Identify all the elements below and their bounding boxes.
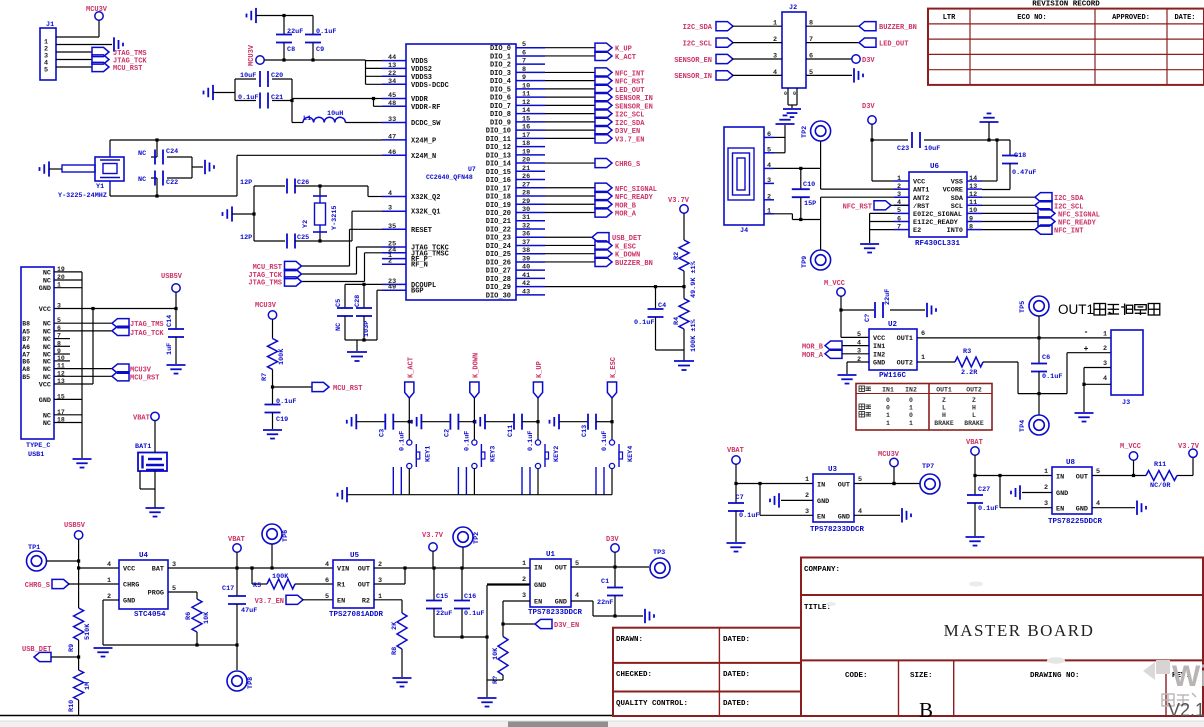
wire J4 pin1	[774, 213, 792, 215]
flag BUZZER_BN	[595, 257, 612, 266]
svg-text:12P: 12P	[240, 234, 252, 242]
ground (BAT1)	[146, 508, 165, 517]
wire	[683, 329, 685, 361]
U7 pin 30 DIO_20	[516, 212, 545, 214]
svg-text:B5: B5	[22, 374, 30, 381]
power VBAT (U4)	[233, 544, 241, 552]
U7 pin 8 DIO_3	[516, 71, 545, 73]
svg-text:BRAKE: BRAKE	[934, 420, 954, 427]
wire	[983, 361, 1018, 363]
svg-text:12P: 12P	[240, 179, 252, 187]
resistor R3 2.2R	[955, 357, 983, 367]
svg-text:47: 47	[388, 133, 396, 141]
wire	[78, 539, 80, 608]
capacitor C26 12P	[254, 185, 285, 187]
wire VCC	[871, 140, 873, 181]
wire	[1038, 394, 1040, 415]
ground (U8 gnd2)	[1011, 485, 1020, 499]
svg-text:0: 0	[793, 91, 796, 97]
svg-text:5: 5	[897, 207, 901, 215]
svg-text:10K: 10K	[492, 647, 500, 660]
svg-text:28: 28	[522, 190, 530, 198]
ground (C3)	[347, 414, 357, 429]
svg-text:DIO_15: DIO_15	[486, 169, 511, 177]
ground (C11)	[476, 414, 486, 429]
svg-text:D3V_EN: D3V_EN	[615, 128, 640, 136]
wire DIO_24	[545, 244, 595, 246]
svg-text:R6: R6	[185, 612, 193, 620]
capacitor C23 10uF	[912, 132, 920, 148]
svg-text:40: 40	[522, 264, 530, 272]
svg-text:DIO_11: DIO_11	[486, 136, 511, 144]
svg-text:MOR_B: MOR_B	[802, 344, 824, 352]
svg-text:C6: C6	[1042, 354, 1050, 362]
svg-text:DIO_7: DIO_7	[490, 103, 511, 111]
svg-text:34: 34	[388, 78, 396, 86]
svg-text:J2: J2	[789, 4, 797, 12]
power M_VCC (U8)	[1129, 452, 1137, 460]
ic U5 TPS27081ADDR	[333, 560, 374, 608]
svg-text:SENSOR_IN: SENSOR_IN	[674, 73, 712, 81]
wire	[196, 632, 198, 645]
svg-text:MCU3V: MCU3V	[878, 451, 900, 459]
svg-text:K_DOWN: K_DOWN	[472, 353, 480, 378]
svg-text:3: 3	[773, 53, 777, 61]
drawn/checked table	[613, 628, 801, 716]
svg-text:CHRG_S: CHRG_S	[615, 161, 640, 169]
svg-text:PW116C: PW116C	[879, 372, 907, 380]
wire	[820, 141, 822, 168]
svg-text:VBAT: VBAT	[966, 439, 983, 447]
svg-text:TP9: TP9	[801, 256, 809, 268]
testpoint TP2 (NFC)	[811, 121, 831, 141]
flag MOR_B	[595, 200, 612, 209]
svg-text:U2: U2	[888, 321, 898, 329]
svg-text:NFC_RST: NFC_RST	[615, 79, 644, 87]
U7 pin 22 VDDS3	[382, 75, 406, 77]
svg-text:DIO_13: DIO_13	[486, 152, 511, 160]
wire DIO_29 net	[545, 286, 684, 288]
svg-text:C19: C19	[276, 416, 288, 424]
U7 pin 28 DIO_18	[516, 195, 545, 197]
wire	[401, 649, 403, 677]
U7 pin 46 X24M_N	[382, 154, 406, 156]
svg-text:SENSOR_EN: SENSOR_EN	[615, 103, 653, 111]
flag USB_DET	[592, 233, 609, 242]
U7 pin 45 VDDR	[382, 98, 406, 100]
wire	[683, 271, 685, 287]
svg-text:TP7: TP7	[922, 463, 934, 471]
flag SENSOR_EN	[595, 101, 612, 110]
flag MCU_RST (R7)	[312, 382, 329, 391]
wire J4 pin4 node	[774, 167, 821, 169]
svg-text:GND: GND	[555, 599, 567, 607]
svg-text:13: 13	[969, 183, 977, 191]
svg-text:ANT2: ANT2	[913, 195, 929, 203]
svg-text:47uF: 47uF	[241, 607, 257, 615]
svg-text:I2C_SCL: I2C_SCL	[615, 112, 644, 120]
svg-text:R5: R5	[253, 582, 261, 590]
svg-text:-: -	[1084, 328, 1089, 337]
svg-text:NC/0R: NC/0R	[1150, 482, 1171, 490]
svg-text:2: 2	[805, 492, 809, 500]
svg-text:USB5V: USB5V	[161, 273, 183, 281]
svg-text:35: 35	[388, 223, 396, 231]
svg-text:BUZZER_BN: BUZZER_BN	[879, 24, 917, 32]
ground (U4)	[94, 648, 113, 657]
svg-text:30: 30	[522, 206, 530, 214]
wire OUT2	[917, 361, 955, 363]
power D3V (NFC)	[868, 116, 876, 124]
svg-text:14: 14	[969, 175, 977, 183]
wire	[421, 421, 450, 423]
svg-text:TPS78233DDCR: TPS78233DDCR	[810, 526, 865, 534]
ground (Y2 caps)	[223, 206, 233, 221]
svg-text:8: 8	[522, 66, 526, 74]
flag MOR_A	[595, 208, 612, 217]
flag I2C_SCL (U6)	[1035, 201, 1052, 210]
svg-text:MCU_RST: MCU_RST	[253, 264, 282, 272]
svg-text:V3.7V: V3.7V	[422, 532, 444, 540]
svg-text:3: 3	[897, 191, 901, 199]
U7 pin 6 DIO_1	[516, 55, 545, 57]
svg-text:100K ±1%: 100K ±1%	[690, 318, 698, 352]
wire	[683, 213, 685, 240]
ground (C14)	[167, 365, 186, 374]
svg-text:15: 15	[522, 115, 530, 123]
wire	[596, 421, 612, 423]
wire	[982, 229, 1035, 231]
wire	[272, 369, 274, 404]
resistor R10 1M	[74, 670, 84, 700]
svg-text:DIO_4: DIO_4	[490, 78, 511, 86]
resistor R11 NC/0R	[1146, 471, 1177, 481]
U7 pin 23 DCOUPL	[382, 283, 406, 285]
svg-text:TYPE_C: TYPE_C	[26, 442, 50, 450]
U7 pin 38 DIO_25	[516, 253, 545, 255]
flag I2C_SCL	[595, 109, 612, 118]
wire OUT	[374, 567, 530, 569]
svg-text:0.1uF: 0.1uF	[634, 319, 654, 327]
wire U3 gnd2	[781, 499, 813, 501]
capacitor C11 0.1uF	[514, 414, 522, 430]
svg-text:VDDR-RF: VDDR-RF	[411, 104, 440, 112]
wire DIO_17	[545, 187, 595, 189]
U7 pin 40 DIO_27	[516, 269, 545, 271]
power VBAT (BAT1)	[151, 412, 159, 420]
svg-text:L: L	[972, 412, 976, 419]
svg-text:0.1uF: 0.1uF	[601, 431, 609, 451]
svg-text:V3.7_EN: V3.7_EN	[255, 598, 284, 606]
svg-text:NFC_READY: NFC_READY	[615, 194, 654, 202]
wire JTAG_TCKC	[357, 246, 383, 248]
svg-text:D3V: D3V	[862, 57, 875, 65]
wire VSS	[982, 180, 997, 182]
switch KEY1	[407, 440, 412, 445]
wire U8 en	[999, 476, 1001, 508]
ground (U3 gnd4)	[902, 508, 911, 522]
svg-text:I2C_SDA: I2C_SDA	[1054, 195, 1084, 203]
flag JTAG_TMS (U7)	[285, 277, 302, 286]
svg-text:9: 9	[522, 74, 526, 82]
svg-text:Y1: Y1	[96, 183, 104, 191]
wire	[732, 58, 782, 60]
U7 pin 31 DIO_21	[516, 220, 545, 222]
wire	[732, 25, 782, 27]
svg-text:BAT: BAT	[152, 566, 164, 574]
svg-text:16: 16	[522, 124, 530, 132]
ground (C24/C22)	[205, 160, 214, 174]
svg-text:0: 0	[886, 405, 890, 412]
wire	[356, 340, 358, 351]
wire U3 out	[854, 483, 920, 485]
svg-text:4: 4	[897, 199, 901, 207]
wire	[473, 398, 475, 440]
svg-text:TPS78225DDCR: TPS78225DDCR	[1048, 518, 1103, 526]
svg-text:J3: J3	[1122, 399, 1130, 407]
U6 pin 3 ANT2 / pin 12 SDA	[894, 196, 909, 198]
svg-text:D3V: D3V	[606, 536, 619, 544]
svg-text:NFC_RST: NFC_RST	[843, 203, 872, 211]
svg-text:C23: C23	[897, 145, 909, 153]
svg-text:1: 1	[805, 476, 809, 484]
flag JTAG_TMS	[92, 47, 109, 56]
svg-text:OUT2: OUT2	[897, 360, 913, 368]
svg-text:NC: NC	[43, 269, 51, 277]
svg-text:10K: 10K	[203, 611, 211, 624]
svg-text:DIO_22: DIO_22	[486, 226, 511, 234]
svg-text:12: 12	[522, 99, 530, 107]
wire RF_P	[382, 258, 392, 260]
crystal Y2 Y-3215	[295, 185, 320, 187]
wire	[457, 467, 459, 495]
svg-text:5: 5	[325, 593, 329, 601]
svg-text:DIO_16: DIO_16	[486, 177, 511, 185]
wire DIO_8	[545, 113, 595, 115]
wire	[732, 74, 782, 76]
flag LED_OUT (J2)	[859, 38, 876, 47]
svg-text:EN: EN	[817, 514, 825, 522]
crystal Y1 Y-3225-24MHZ	[62, 165, 95, 172]
svg-text:0.1uF: 0.1uF	[316, 28, 336, 36]
svg-text:K_ESC: K_ESC	[615, 243, 636, 251]
svg-text:5: 5	[522, 41, 526, 49]
ground (USB1)	[73, 459, 92, 468]
svg-text:4: 4	[388, 190, 392, 198]
capacitor C2 0.1uF	[450, 414, 458, 430]
svg-text:K_ACT: K_ACT	[407, 357, 415, 378]
svg-text:0.47uF: 0.47uF	[1012, 169, 1036, 177]
svg-text:VDDS-DCDC: VDDS-DCDC	[411, 82, 449, 90]
wire	[56, 44, 112, 46]
wire J3 pins 3/4	[1084, 367, 1111, 369]
svg-text:2: 2	[1044, 484, 1048, 492]
wire X32K_Q1	[320, 240, 352, 242]
svg-text:H: H	[972, 405, 976, 412]
wire U1 gnd2	[487, 583, 530, 585]
svg-text:C22: C22	[166, 179, 178, 187]
svg-text:0: 0	[909, 412, 913, 419]
capacitor C12 22uF	[875, 302, 883, 318]
wire BAT rail	[168, 567, 333, 569]
ground (C20/C21)	[204, 85, 214, 100]
svg-text:VDDR: VDDR	[411, 96, 429, 104]
flag SENSOR_IN	[595, 93, 612, 102]
wire	[924, 139, 1010, 141]
wire U8 out	[1092, 475, 1146, 477]
U7 pin 17 DIO_11	[516, 137, 545, 139]
svg-text:C17: C17	[222, 585, 234, 593]
svg-text:GND: GND	[1076, 506, 1088, 514]
svg-text:L1: L1	[303, 115, 311, 123]
svg-text:TPS27081ADDR: TPS27081ADDR	[329, 611, 384, 619]
testpoint TP2 (V3.7V)	[453, 527, 473, 547]
watermark	[826, 582, 1204, 721]
wire	[68, 583, 119, 585]
wire GND U2	[847, 361, 869, 363]
wire DIO_7	[545, 104, 595, 106]
wire X24M_N	[109, 181, 111, 190]
U7 pin 34 VDDS-DCDC	[382, 83, 406, 85]
svg-text:GND: GND	[39, 397, 51, 405]
svg-text:7: 7	[897, 223, 901, 231]
svg-text:36: 36	[522, 231, 530, 239]
svg-text:APPROVED:: APPROVED:	[1112, 14, 1150, 22]
svg-text:Z: Z	[972, 397, 976, 404]
svg-text:C1: C1	[601, 578, 609, 586]
svg-text:14: 14	[522, 107, 530, 115]
svg-text:D3V: D3V	[862, 103, 875, 111]
svg-text:4: 4	[1103, 375, 1107, 383]
wire U3 en	[759, 484, 761, 516]
wire	[485, 421, 514, 423]
ic U2 PW116C	[869, 329, 917, 370]
svg-text:0.1uF: 0.1uF	[739, 512, 759, 520]
sheet bottom border	[0, 715, 612, 717]
resistor R5 100K	[251, 568, 253, 584]
capacitor C17 47uF	[236, 568, 238, 596]
svg-text:GND: GND	[873, 360, 885, 368]
wire DIO_23	[545, 236, 592, 238]
wire	[982, 221, 1038, 223]
svg-text:A8: A8	[22, 366, 30, 373]
svg-text:I2C_SDA: I2C_SDA	[683, 24, 713, 32]
U7 pin 16 DIO_10	[516, 129, 545, 131]
capacitor C28 103P	[363, 284, 365, 308]
capacitor C3 0.1uF	[385, 414, 393, 430]
svg-text:I2C_SDA: I2C_SDA	[615, 120, 645, 128]
svg-text:I2C_SCL: I2C_SCL	[683, 40, 712, 48]
wire DCDC	[291, 101, 293, 123]
title block	[801, 558, 1203, 717]
U6 pin 2 ANT1 / pin 13 VCORE	[894, 188, 909, 190]
svg-text:19: 19	[522, 148, 530, 156]
svg-text:U7: U7	[468, 166, 476, 173]
svg-text:USB5V: USB5V	[64, 522, 86, 530]
wire	[982, 204, 1035, 206]
svg-text:2K: 2K	[391, 621, 399, 630]
svg-text:H: H	[942, 412, 946, 419]
ground (C19)	[263, 430, 282, 439]
resistor R4 100K	[679, 299, 689, 329]
capacitor C15 22uF	[433, 568, 435, 601]
svg-text:32: 32	[522, 222, 530, 230]
svg-text:DIO_17: DIO_17	[486, 185, 511, 193]
wire	[234, 79, 236, 101]
svg-text:K_UP: K_UP	[615, 46, 632, 54]
U7 pin 1 RF_P	[382, 258, 406, 260]
flag NFC_READY	[595, 191, 612, 200]
flag NFC_RST	[595, 76, 612, 85]
wire DIO_5	[545, 88, 595, 90]
svg-text:KEY4: KEY4	[627, 446, 635, 462]
wire E0-E2 gnd	[870, 212, 894, 214]
wire	[611, 398, 613, 440]
U7 pin 18 DIO_12	[516, 146, 545, 148]
svg-text:1uF: 1uF	[166, 343, 174, 355]
U7 pin 15 DIO_9	[516, 121, 545, 123]
svg-text:7: 7	[522, 58, 526, 66]
wire DIO_25	[545, 253, 595, 255]
svg-text:Y-3225-24MHZ: Y-3225-24MHZ	[58, 192, 107, 200]
svg-text:X32K_Q1: X32K_Q1	[411, 209, 440, 217]
capacitor C13 0.1uF	[588, 414, 596, 430]
svg-text:4: 4	[1096, 500, 1100, 508]
svg-text:OUT: OUT	[1076, 474, 1088, 482]
svg-text:VIN: VIN	[337, 566, 349, 574]
U6 pin 1 VCC / pin 14 VSS	[894, 180, 909, 182]
svg-text:TP2: TP2	[473, 532, 481, 544]
wire R2pin	[374, 599, 402, 601]
svg-text:DIO_21: DIO_21	[486, 218, 511, 226]
svg-text:L: L	[942, 405, 946, 412]
wire	[393, 421, 409, 423]
wire DIO_9	[545, 121, 595, 123]
svg-text:BAT1: BAT1	[135, 443, 151, 451]
U7 pin 47 X24M_P	[382, 139, 406, 141]
wire	[356, 421, 385, 423]
svg-text:KEY1: KEY1	[424, 446, 432, 462]
svg-text:IN1: IN1	[882, 387, 894, 394]
svg-text:DIO_24: DIO_24	[486, 243, 511, 251]
svg-text:4: 4	[107, 561, 111, 569]
wire OUT1	[917, 337, 1111, 339]
svg-text:DRAWN:: DRAWN:	[616, 636, 643, 644]
svg-text:C15: C15	[436, 593, 448, 601]
svg-text:K_ACT: K_ACT	[615, 54, 636, 62]
svg-text:NC: NC	[138, 176, 146, 184]
svg-text:SIZE:: SIZE:	[910, 672, 933, 680]
wire	[806, 42, 859, 44]
svg-text:13: 13	[388, 62, 396, 70]
svg-text:E2: E2	[913, 227, 921, 235]
U7 pin 24 JTAG_TMSC	[382, 252, 406, 254]
wire	[458, 421, 474, 423]
ic U6 RF430CL331	[909, 172, 967, 237]
wire	[283, 43, 285, 60]
flag MCU_RST (USB)	[112, 372, 129, 381]
wire	[79, 567, 119, 569]
wire	[191, 157, 193, 178]
svg-text:CODE:: CODE:	[845, 672, 868, 680]
svg-text:9: 9	[969, 215, 973, 223]
capacitor C7 0.1uF	[728, 503, 744, 511]
svg-text:GND: GND	[39, 285, 51, 293]
wire	[256, 15, 313, 17]
svg-text:21: 21	[522, 165, 530, 173]
wire	[47, 560, 79, 562]
svg-text:C14: C14	[166, 315, 174, 327]
